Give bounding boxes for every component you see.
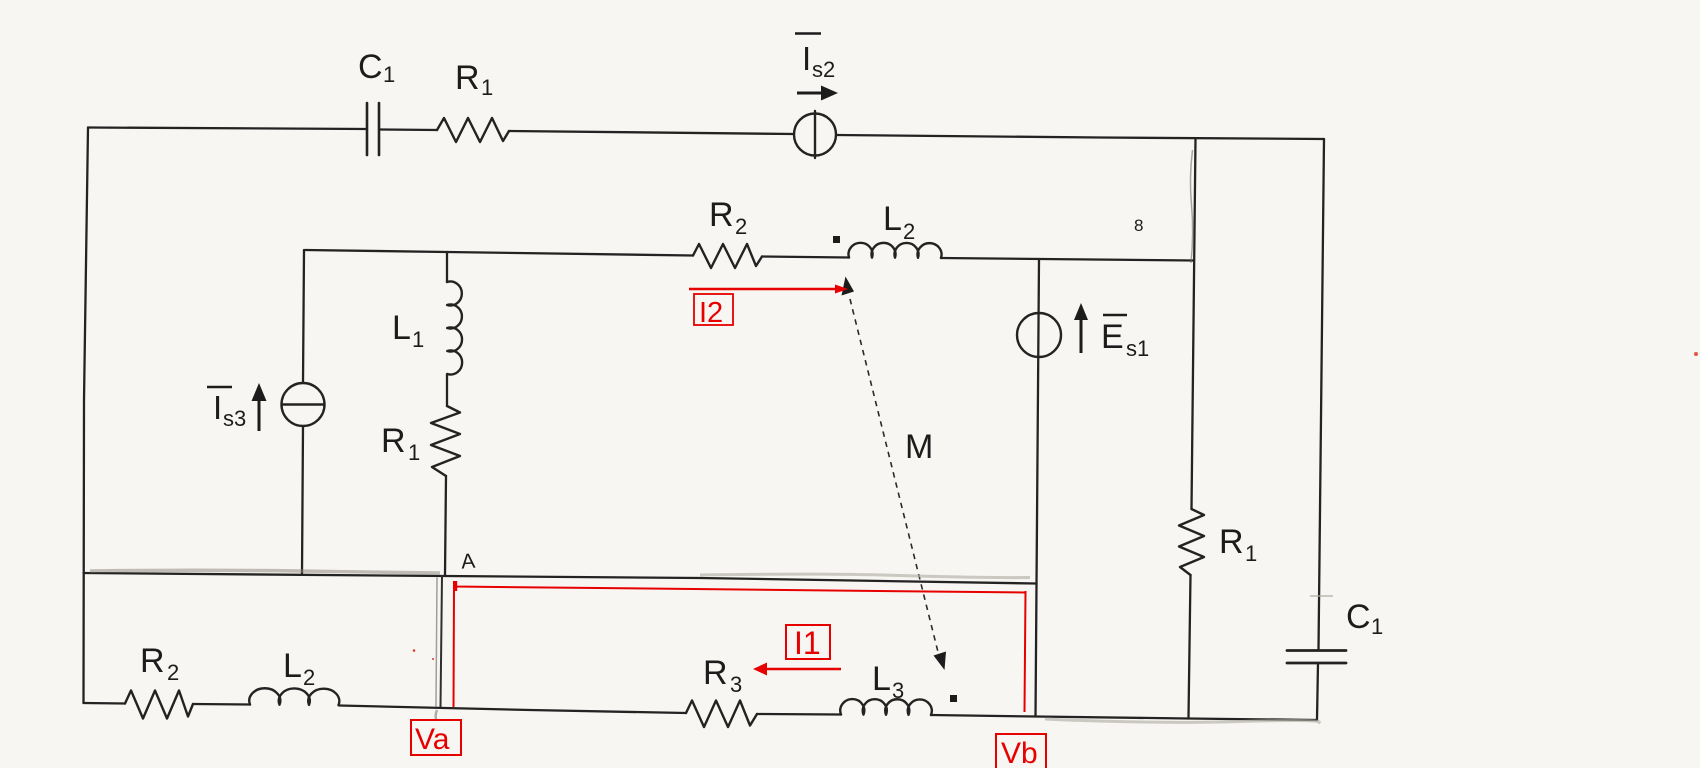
- svg-text:2: 2: [735, 214, 747, 239]
- svg-text:I: I: [213, 389, 222, 426]
- svg-text:R: R: [709, 196, 734, 234]
- svg-text:1: 1: [408, 440, 420, 465]
- label R1 (right): [1219, 523, 1257, 566]
- inductor L2 (bottom): [249, 688, 339, 705]
- svg-text:1: 1: [383, 62, 395, 87]
- svg-text:2: 2: [303, 665, 315, 690]
- current source Is2: [794, 111, 836, 158]
- svg-text:Vb: Vb: [1001, 737, 1038, 768]
- resistor R2 (row2): [693, 244, 762, 268]
- arrow of Is3: [252, 383, 267, 431]
- red speck 2: [432, 658, 434, 660]
- red speck right: [1694, 352, 1698, 356]
- svg-text:8: 8: [1134, 216, 1143, 235]
- inductor L1: [447, 281, 462, 374]
- wire right R1 branch lower: [1189, 575, 1191, 718]
- label I1 (red box): [786, 625, 830, 661]
- wire second row left: [305, 250, 447, 252]
- svg-text:1: 1: [1371, 614, 1383, 639]
- wire Is3 branch lower: [302, 426, 303, 574]
- wire R2 to L2: [762, 257, 849, 258]
- wire L2 to R3: [339, 706, 686, 714]
- label I2 (red box): [694, 294, 733, 329]
- arrow of Is2: [797, 86, 838, 101]
- svg-text:C: C: [1346, 598, 1371, 636]
- label L2 (row2): [883, 200, 915, 244]
- capacitor C1 (top): [367, 103, 379, 155]
- label C1 (right): [1346, 598, 1383, 639]
- svg-text:2: 2: [903, 219, 915, 244]
- svg-text:E: E: [1101, 318, 1124, 356]
- mutual inductance M dashed arrow: [842, 277, 947, 671]
- label L2 (bottom): [283, 647, 315, 690]
- resistor R2 (bottom): [125, 691, 193, 719]
- svg-text:A: A: [460, 550, 476, 574]
- label Va (red box): [411, 720, 461, 756]
- label R2 (bottom): [140, 642, 179, 685]
- inductor L3 (bottom): [840, 699, 932, 715]
- svg-text:R: R: [140, 642, 165, 680]
- red arrow I1: [753, 663, 841, 676]
- label C1 (top): [358, 48, 395, 87]
- svg-text:L: L: [392, 309, 411, 347]
- wire second row to R2: [447, 252, 693, 256]
- resistor R1 (right vertical): [1179, 509, 1204, 575]
- svg-text:1: 1: [481, 75, 493, 100]
- resistor R1 (top): [437, 118, 509, 142]
- inductor L2 (row2): [849, 243, 942, 258]
- label R3 (bottom): [703, 654, 742, 697]
- label Is2: [795, 34, 835, 83]
- svg-text:s2: s2: [812, 57, 835, 82]
- label L3 (bottom): [872, 660, 904, 703]
- wire C1 to R1: [379, 128, 437, 131]
- wire right edge lower: [1317, 663, 1318, 720]
- wire bottom-left: [84, 702, 126, 705]
- red tick at mesh corner: [454, 581, 457, 591]
- scan smudge marks: [90, 150, 1333, 723]
- capacitor C1 (right): [1287, 651, 1346, 664]
- wire R2 to L2 bottom: [193, 703, 250, 706]
- label Is3: [207, 387, 246, 431]
- wire right R1 branch upper: [1192, 139, 1196, 510]
- wire L1 to R1: [446, 374, 448, 406]
- wire Is3 branch upper: [303, 250, 304, 383]
- node Va vertical line: [436, 576, 442, 707]
- red arrow I2: [689, 285, 848, 294]
- wire top-left horizontal: [88, 128, 367, 130]
- label L1: [392, 309, 424, 352]
- wire Is2 to top-right corner: [836, 135, 1324, 139]
- red mesh rectangle: [454, 581, 1026, 712]
- svg-text:C: C: [358, 48, 383, 86]
- svg-text:s1: s1: [1126, 336, 1149, 361]
- voltage source Es1: [1017, 313, 1061, 357]
- resistor R3 (bottom): [686, 701, 757, 728]
- svg-text:R: R: [703, 654, 728, 692]
- svg-text:L: L: [872, 660, 891, 698]
- svg-text:R: R: [455, 59, 480, 97]
- wire R1 to mid rail: [445, 476, 446, 575]
- label Es1: [1101, 315, 1149, 361]
- arrow of Es1: [1074, 303, 1088, 353]
- svg-text:R: R: [1219, 523, 1244, 561]
- wire L3 to bottom-right corner: [931, 715, 1317, 720]
- svg-text:R: R: [381, 422, 406, 460]
- svg-text:L: L: [283, 647, 302, 685]
- gray drip below wire near Va: [436, 710, 437, 719]
- wire R3 to L3: [757, 713, 841, 716]
- red speck 1: [413, 649, 416, 652]
- svg-text:Va: Va: [415, 723, 450, 756]
- label R1 (middle): [381, 422, 420, 465]
- wire Es1 branch vertical: [1036, 259, 1040, 717]
- current source Is3: [282, 383, 325, 426]
- label Vb (red box): [996, 734, 1046, 768]
- svg-text:1: 1: [1245, 541, 1257, 566]
- svg-text:I2: I2: [699, 297, 723, 329]
- dot mark of L3: [950, 695, 957, 702]
- svg-text:2: 2: [167, 660, 179, 685]
- svg-text:I: I: [802, 40, 811, 77]
- svg-text:3: 3: [892, 678, 904, 703]
- dot mark of L2: [833, 236, 840, 243]
- wire L1 branch upper: [446, 252, 448, 282]
- svg-text:M: M: [905, 428, 933, 466]
- wire middle rail: [84, 573, 1037, 584]
- wire left edge vertical: [84, 128, 89, 704]
- wire right edge upper: [1319, 139, 1325, 650]
- svg-text:3: 3: [730, 672, 742, 697]
- svg-text:L: L: [883, 200, 902, 238]
- svg-text:1: 1: [412, 327, 424, 352]
- svg-text:s3: s3: [223, 406, 246, 431]
- label R1 (top): [455, 59, 493, 100]
- resistor R1 (middle vertical): [431, 406, 460, 476]
- wire L2 to right: [941, 258, 1194, 261]
- svg-text:I1: I1: [794, 625, 821, 661]
- wire R1 to Is2: [509, 131, 794, 134]
- label R2 (row2): [709, 196, 747, 239]
